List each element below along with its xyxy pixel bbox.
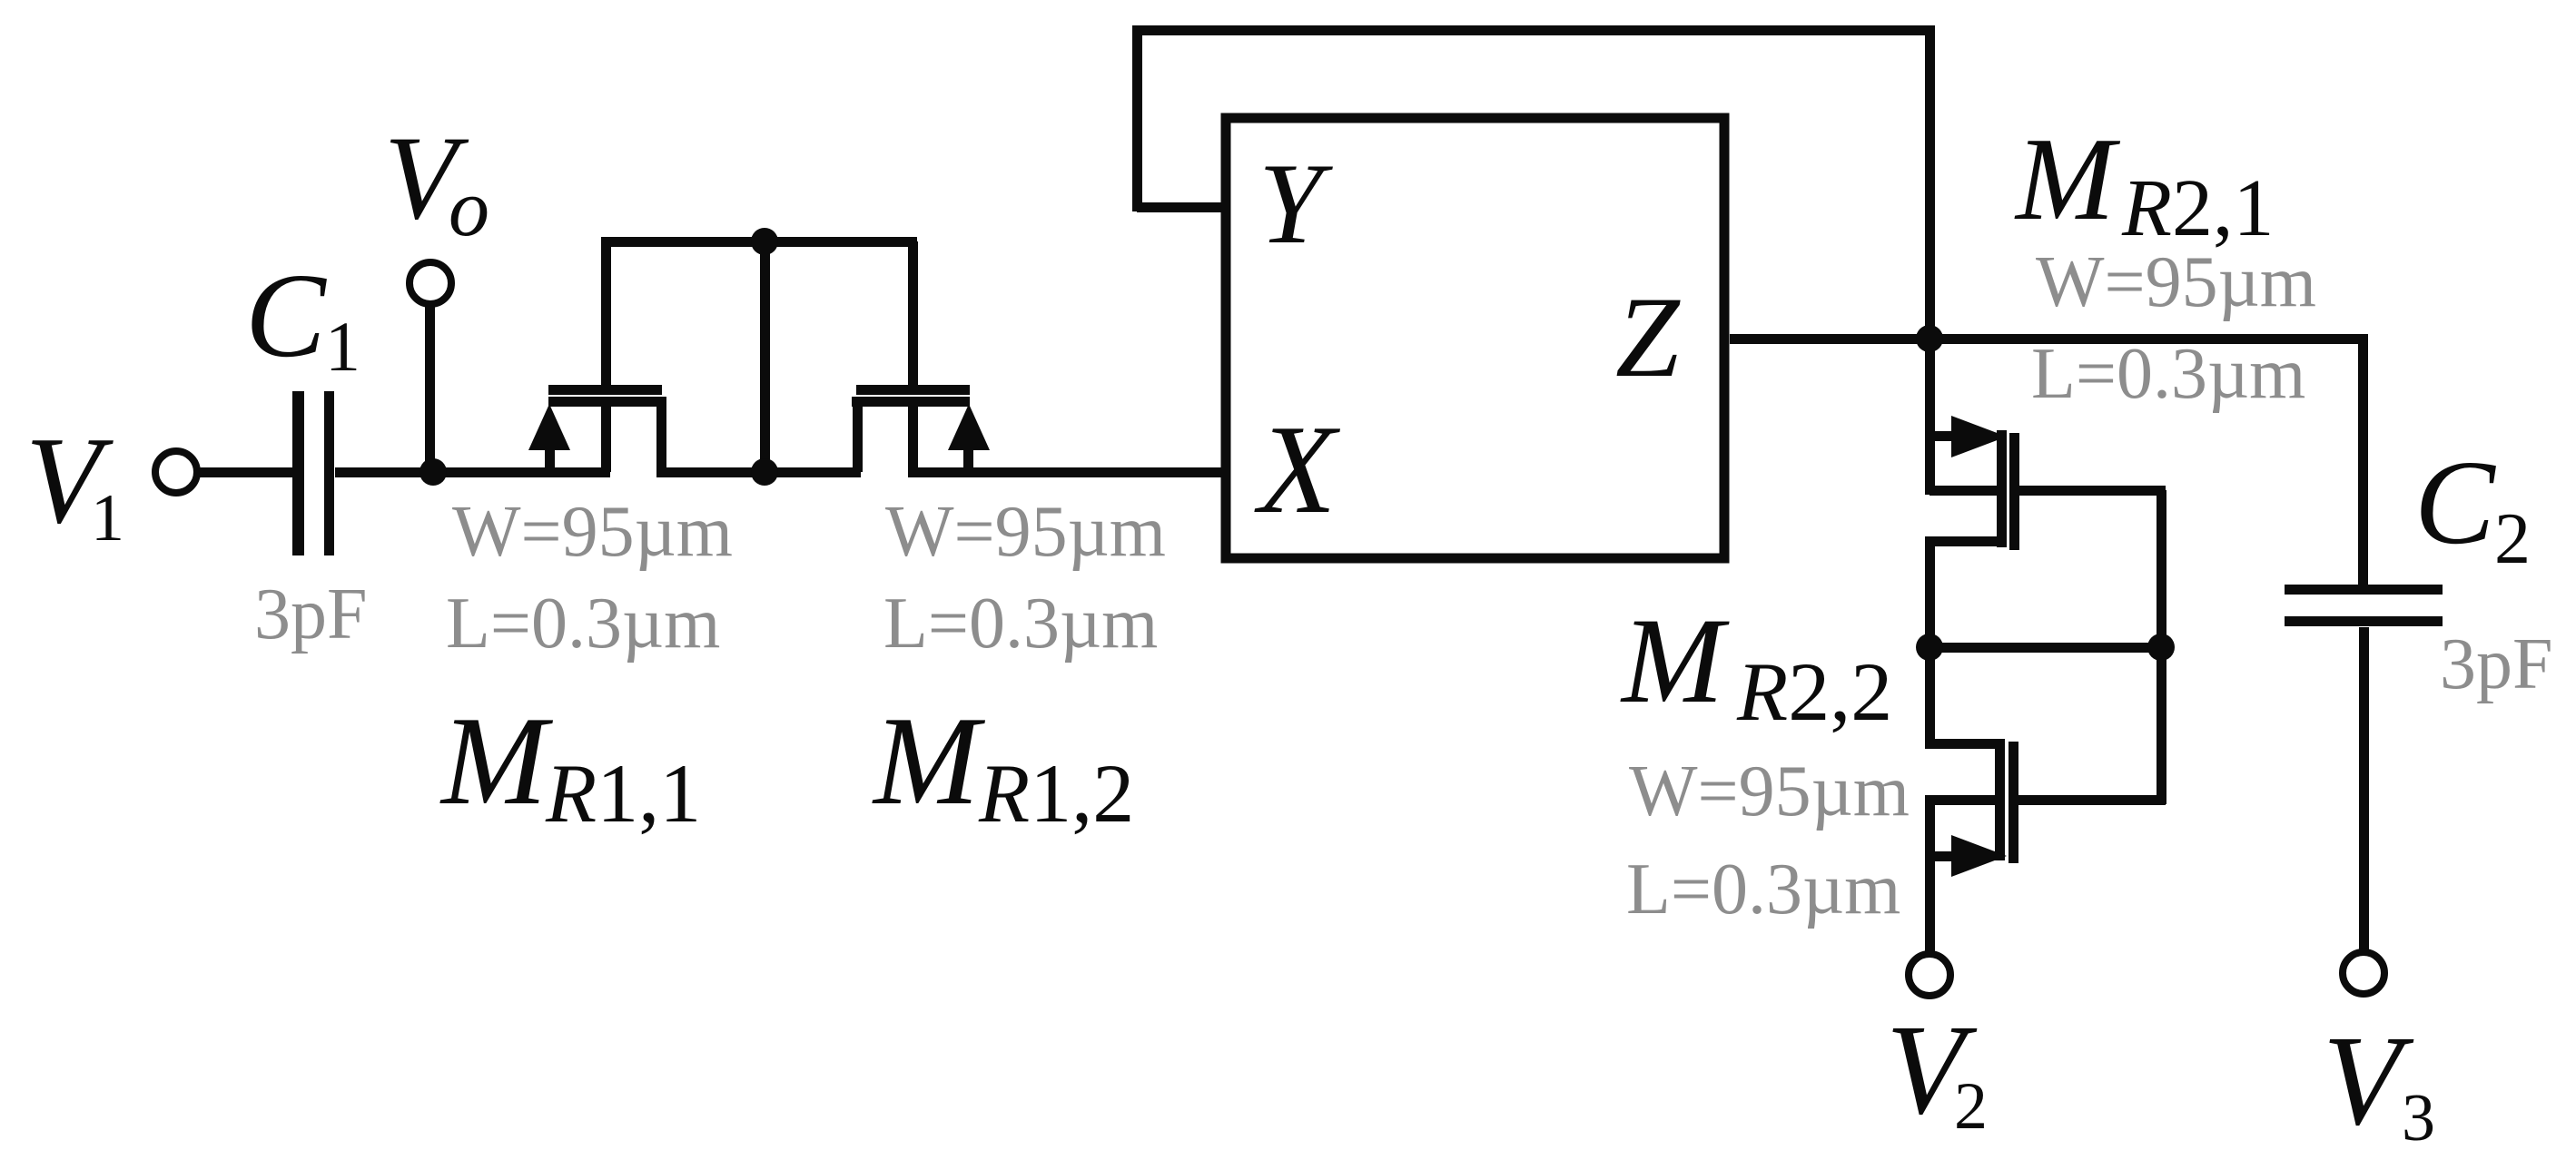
svg-text:3: 3 (2402, 1081, 2435, 1155)
wire gate MR2,1 (2018, 486, 2166, 647)
wire MR1,2 to X input (908, 467, 1221, 477)
svg-text:Y: Y (1258, 141, 1333, 268)
svg-text:L=0.3µm: L=0.3µm (1626, 850, 1900, 929)
block U1 X/Y/Z (1226, 118, 1724, 558)
svg-text:C: C (2414, 435, 2496, 569)
svg-text:o: o (449, 163, 489, 253)
node main wire junction (751, 458, 778, 486)
wire feedback loop (1132, 25, 1935, 343)
capacitor C2 (2285, 585, 2443, 626)
svg-text:R2,2: R2,2 (1736, 645, 1892, 738)
node A right junction (2147, 634, 2175, 661)
svg-text:Z: Z (1615, 274, 1681, 401)
transistor MR2,1 (1925, 416, 2019, 550)
svg-text:W=95µm: W=95µm (885, 492, 1166, 572)
svg-text:2: 2 (2494, 499, 2531, 579)
svg-text:M: M (1620, 594, 1730, 729)
svg-text:1: 1 (91, 481, 124, 555)
transistor MR2,2 (1925, 739, 2018, 877)
wire Vo to node (425, 305, 435, 472)
wire gate MR2,2 (2018, 647, 2166, 805)
svg-text:V: V (2323, 1008, 2414, 1152)
wire gate bus to main (760, 241, 770, 472)
wire Z output (1730, 334, 2367, 344)
svg-text:L=0.3µm: L=0.3µm (883, 584, 1158, 664)
wire gate MR1,1 (601, 241, 611, 385)
svg-text:W=95µm: W=95µm (452, 492, 733, 572)
wire Z junction to MR2,1 (1925, 339, 1935, 495)
svg-text:R2,1: R2,1 (2121, 163, 2274, 253)
transistor MR1,1 (528, 385, 666, 472)
transistor MR1,2 (852, 385, 990, 472)
svg-text:C: C (245, 248, 327, 382)
svg-text:M: M (872, 691, 986, 831)
capacitor C1 (292, 391, 334, 555)
svg-text:1: 1 (325, 307, 360, 386)
wire MR2,1 to node A (1925, 536, 1935, 749)
svg-text:2: 2 (1954, 1069, 1988, 1144)
terminal V1 (155, 451, 197, 493)
svg-text:3pF: 3pF (254, 575, 368, 654)
wire V1 to C1 (199, 467, 292, 477)
wire Y input (1137, 202, 1226, 212)
svg-text:R1,1: R1,1 (545, 747, 701, 840)
wire MR2,2 to V2 (1925, 795, 1935, 952)
wire C1 to MR1,1 (335, 467, 610, 477)
svg-text:R1,2: R1,2 (978, 747, 1134, 840)
svg-text:3pF: 3pF (2440, 624, 2553, 704)
node gate bus junction (751, 228, 778, 255)
wire node A (1925, 643, 2166, 653)
node A left junction (1916, 634, 1943, 661)
terminal Vo (410, 262, 451, 304)
node Z junction (1916, 325, 1943, 352)
terminal V2 (1909, 954, 1950, 996)
svg-text:W=95µm: W=95µm (2036, 242, 2316, 322)
wire C2 to V3 (2359, 627, 2369, 952)
svg-text:L=0.3µm: L=0.3µm (446, 584, 720, 664)
terminal V3 (2343, 952, 2384, 994)
wire gate bus (601, 237, 917, 247)
svg-text:L=0.3µm: L=0.3µm (2031, 334, 2305, 414)
wire gate MR1,2 (908, 241, 918, 385)
svg-text:M: M (439, 691, 554, 831)
svg-text:W=95µm: W=95µm (1629, 752, 1910, 831)
svg-text:X: X (1254, 399, 1341, 540)
svg-text:M: M (2014, 113, 2121, 245)
node Vo junction (419, 458, 447, 486)
wire Z to C2 (2358, 334, 2368, 585)
wire MR1,1 to MR1,2 (656, 467, 861, 477)
